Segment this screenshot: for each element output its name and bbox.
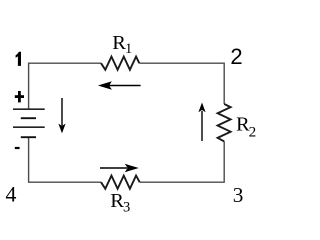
svg-text:2: 2 bbox=[230, 44, 242, 69]
wire top-left segment (node 1 to R1) bbox=[29, 63, 101, 109]
resistor R1 bbox=[101, 57, 139, 70]
current arrow top (pointing left, under R1) bbox=[98, 81, 141, 89]
resistor R3 bbox=[101, 176, 140, 189]
wire bottom-left segment (R3 to node 4 to battery) bbox=[29, 137, 101, 182]
svg-text:2: 2 bbox=[249, 124, 257, 141]
battery B1 short plate (upper) bbox=[21, 117, 36, 119]
current arrow left (pointing down, beside battery) bbox=[58, 98, 65, 133]
current arrow right (pointing up, beside R2) bbox=[198, 103, 205, 142]
resistor R2 bbox=[218, 104, 231, 141]
wire right-bottom segment (R2 to node 3) bbox=[140, 141, 225, 182]
battery B1 long plate (lower) bbox=[13, 126, 45, 128]
battery B1 long plate (top, +) bbox=[13, 108, 45, 110]
battery positive terminal label + bbox=[15, 91, 24, 102]
svg-text:3: 3 bbox=[123, 199, 130, 213]
wire top-right segment (R1 to node 2) bbox=[139, 63, 224, 104]
svg-text:1: 1 bbox=[125, 41, 132, 57]
current arrow bottom (pointing right, above R3) bbox=[100, 164, 139, 172]
svg-text:4: 4 bbox=[6, 183, 17, 207]
svg-text:3: 3 bbox=[233, 183, 244, 207]
battery B1 short plate (bottom, -) bbox=[21, 136, 36, 138]
node 1 label bbox=[16, 52, 21, 66]
battery negative terminal label - bbox=[15, 147, 20, 149]
